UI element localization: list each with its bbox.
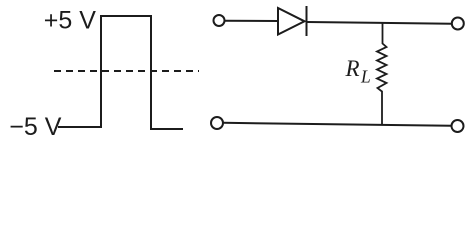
svg-text:+5 V: +5 V <box>44 6 96 34</box>
svg-text:−5 V: −5 V <box>9 113 61 141</box>
svg-text:R: R <box>345 56 360 81</box>
svg-text:L: L <box>360 66 371 86</box>
